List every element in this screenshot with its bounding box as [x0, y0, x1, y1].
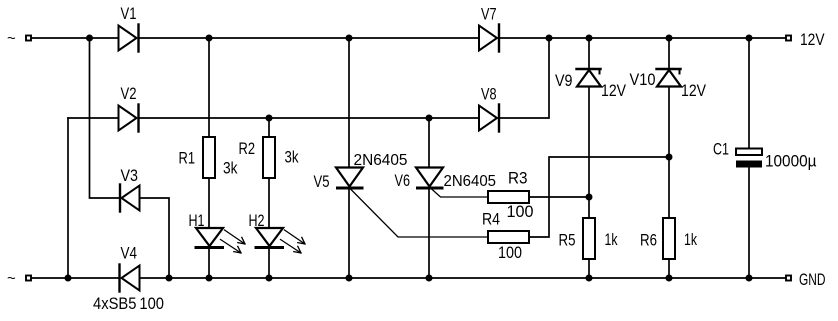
thyristor V6 [395, 168, 497, 191]
tilde AC2 [7, 270, 16, 287]
wire V9 to R5 [588, 87, 590, 218]
node top rail at C1 [746, 35, 753, 42]
node GND rail at V6 [426, 275, 433, 282]
svg-text:R2: R2 [239, 139, 256, 158]
wire V6 anode from mid rail [428, 118, 430, 168]
LED H1 arrows [221, 230, 246, 253]
node GND rail at R5 [586, 275, 593, 282]
svg-text:V6: V6 [395, 171, 411, 190]
zener V9 [555, 69, 627, 100]
diode V4 [93, 244, 164, 314]
wire top rail V7 to 12V terminal [499, 37, 787, 39]
diode V7 [479, 5, 499, 52]
wire R1 to H1 [208, 178, 210, 228]
svg-text:1k: 1k [605, 230, 618, 249]
wire R6 to GND rail [668, 259, 670, 278]
svg-text:R6: R6 [640, 231, 657, 250]
tilde AC1 [7, 30, 16, 47]
wire R2 to H2 [268, 178, 270, 228]
svg-text:4xSB5 100: 4xSB5 100 [93, 294, 164, 313]
node GND rail at V3 [166, 275, 173, 282]
node GND rail at R6 [666, 275, 673, 282]
node mid rail at V6 [426, 115, 433, 122]
wire R2 top [268, 118, 270, 137]
node GND rail at V5 [346, 275, 353, 282]
wire V10 top [668, 38, 670, 68]
wire V5 gate to R4 [350, 189, 488, 238]
LED H1 [189, 211, 224, 248]
resistor R2 [239, 137, 299, 178]
svg-text:V5: V5 [314, 172, 330, 191]
terminal AC1 [26, 36, 31, 41]
capacitor C1 [713, 140, 817, 171]
diode V1 [119, 4, 139, 52]
resistor R4 [482, 210, 529, 263]
node GND rail at x68 [65, 275, 72, 282]
svg-text:3k: 3k [285, 148, 299, 167]
terminal GND [786, 270, 826, 289]
svg-text:~: ~ [7, 270, 16, 287]
diode V8 [479, 85, 499, 132]
node R4 V10 R6 [666, 154, 673, 161]
node top rail at V5 [346, 35, 353, 42]
svg-text:2N6405: 2N6405 [444, 173, 497, 190]
wire AC2 to V4 [32, 277, 119, 279]
wire V6 cathode to GND rail [428, 190, 430, 279]
node top rail at V10 [666, 35, 673, 42]
svg-text:R4: R4 [482, 210, 500, 229]
svg-text:R1: R1 [179, 149, 196, 168]
thyristor V5 [314, 152, 408, 191]
node top rail at V9 [586, 35, 593, 42]
svg-text:C1: C1 [713, 140, 729, 159]
node top rail at R1 [206, 35, 213, 42]
wire V8 cathode riser to top rail [499, 38, 550, 118]
diode V3 [120, 166, 140, 212]
node R3 V9 R5 [586, 194, 593, 201]
resistor R6 [640, 218, 697, 259]
wire AC1 vertical x90 to V3 [90, 38, 121, 198]
wire AC2 vertical x68 [67, 118, 69, 278]
svg-text:V10: V10 [630, 70, 656, 89]
node mid rail at R2 [266, 115, 273, 122]
wire V5 anode from top rail [348, 38, 350, 168]
wire V5 cathode to GND rail [348, 190, 350, 279]
svg-text:V3: V3 [121, 166, 139, 185]
svg-text:12V: 12V [601, 81, 627, 100]
svg-text:H1: H1 [189, 211, 205, 230]
svg-text:V9: V9 [555, 71, 573, 90]
svg-text:V2: V2 [121, 84, 137, 103]
wire R3 to node V9 [529, 196, 589, 198]
wire GND rail V4 to GND terminal [140, 277, 787, 279]
wire C1 top [748, 38, 750, 149]
svg-text:~: ~ [7, 30, 16, 47]
svg-text:V7: V7 [481, 5, 497, 24]
node GND rail at H1 [206, 275, 213, 282]
svg-text:GND: GND [799, 270, 826, 289]
wire top rail V1 to V7 [140, 37, 480, 39]
wire R4 riser to node V10 [529, 157, 669, 237]
wire mid rail V2 to V8 [140, 117, 480, 119]
terminal AC2 [26, 276, 31, 281]
svg-text:12V: 12V [681, 81, 707, 100]
wire H2 to GND rail [268, 249, 270, 279]
node top rail at V8 riser [546, 35, 553, 42]
svg-text:H2: H2 [249, 211, 265, 230]
LED H2 [249, 211, 284, 248]
node GND rail at H2 [266, 275, 273, 282]
resistor R1 [179, 137, 238, 178]
svg-text:10000µ: 10000µ [765, 152, 817, 171]
wire C1 to GND rail [748, 168, 750, 279]
svg-text:V4: V4 [121, 244, 138, 263]
svg-text:2N6405: 2N6405 [354, 152, 408, 169]
svg-text:R3: R3 [508, 169, 528, 188]
svg-text:1k: 1k [684, 230, 697, 249]
svg-text:3k: 3k [223, 159, 238, 178]
terminal 12V [786, 30, 825, 49]
wire H1 to GND rail [208, 249, 210, 279]
wire V2 anode left [68, 117, 119, 119]
zener V10 [630, 69, 707, 100]
wire V9 top [588, 38, 590, 68]
resistor R3 [488, 169, 534, 222]
svg-text:100: 100 [498, 243, 522, 262]
wire AC1 to V1 [32, 37, 119, 39]
diode V2 [119, 84, 139, 132]
wire V6 gate to R3 [431, 189, 488, 198]
wire V10 to R6 [668, 87, 670, 218]
resistor R5 [559, 218, 618, 259]
wire R5 to GND rail [588, 259, 590, 278]
svg-text:V1: V1 [121, 4, 137, 23]
svg-text:R5: R5 [559, 231, 576, 250]
svg-text:100: 100 [507, 202, 534, 221]
wire R1 top [208, 38, 210, 137]
svg-text:12V: 12V [800, 30, 825, 49]
wire V3 anode to GND rail [140, 198, 170, 278]
LED H2 arrows [281, 230, 306, 253]
node top rail at x90 [86, 35, 93, 42]
node GND rail at C1 [746, 275, 753, 282]
svg-text:V8: V8 [481, 85, 497, 104]
